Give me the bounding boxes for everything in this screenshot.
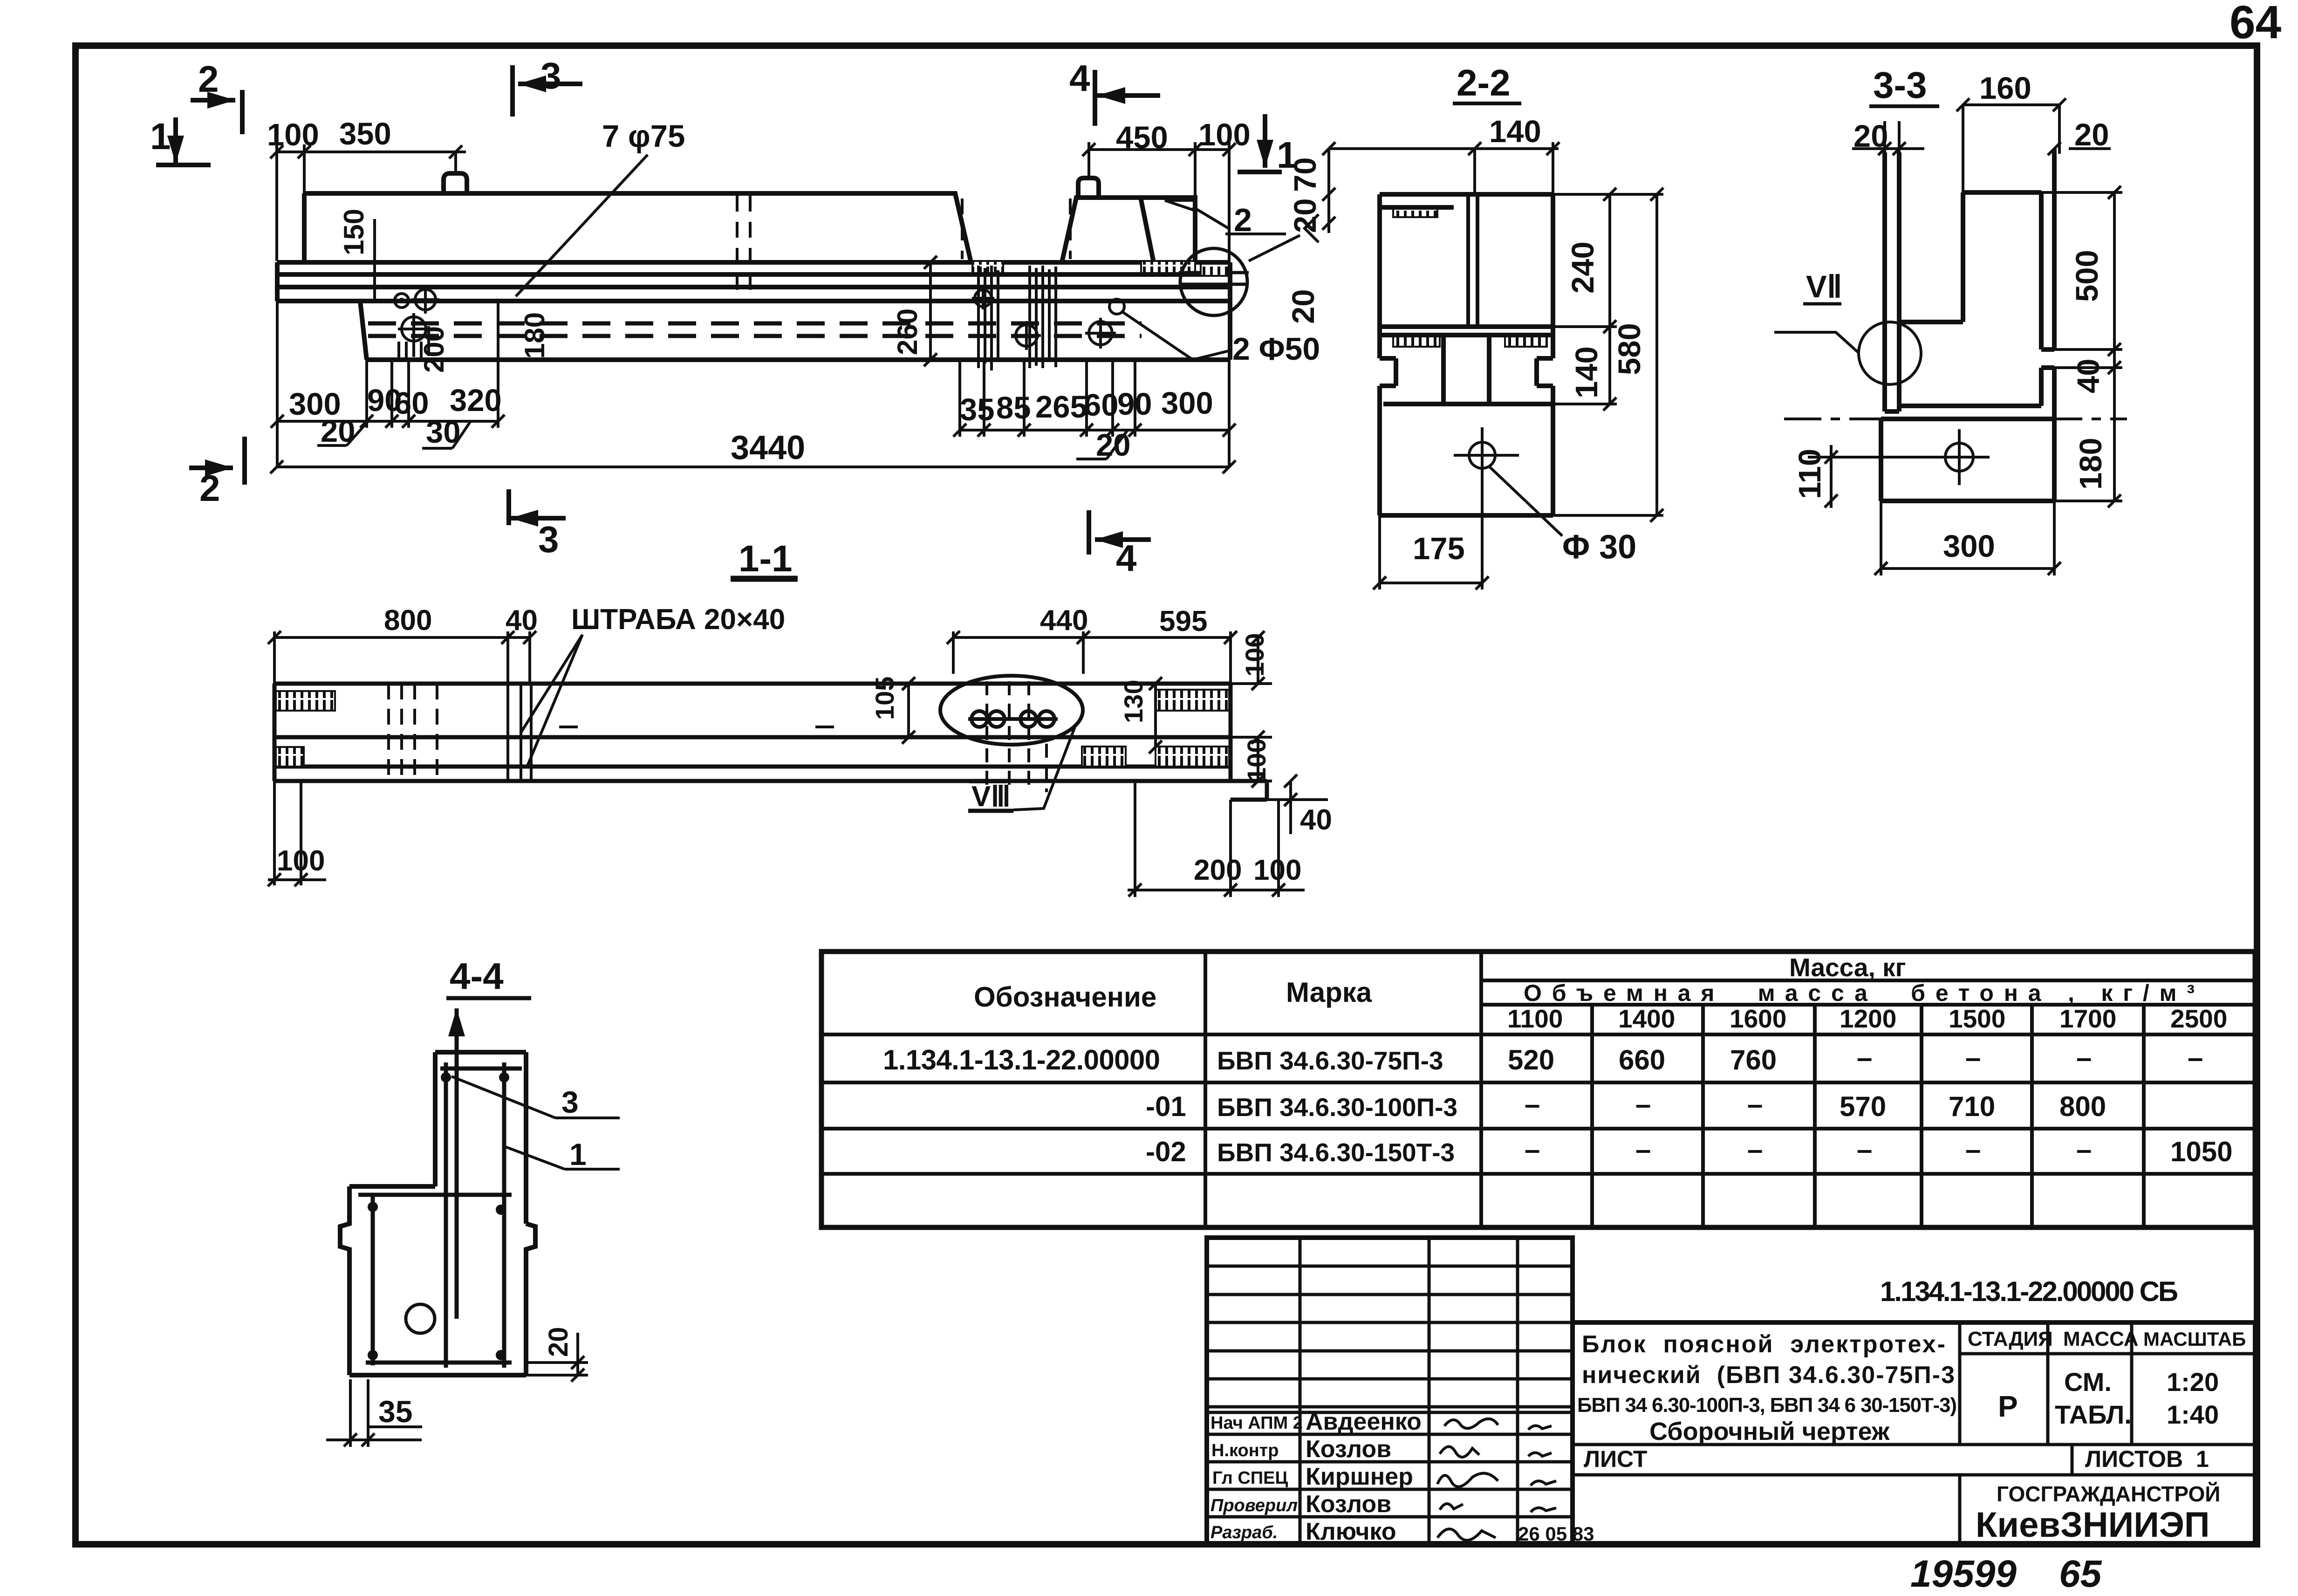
svg-text:Блок поясной электротех-: Блок поясной электротех- [1582,1331,1945,1358]
svg-text:320: 320 [450,383,502,418]
svg-text:–: – [1965,1042,1981,1073]
svg-text:100: 100 [1242,739,1271,782]
svg-text:–: – [1525,1089,1540,1120]
svg-text:Н.контр: Н.контр [1211,1441,1279,1460]
svg-text:ТАБЛ.: ТАБЛ. [2055,1400,2132,1429]
svg-text:520: 520 [1508,1044,1554,1075]
svg-text:–: – [1747,1134,1763,1165]
svg-text:БВП 34.6.30-150Т-3: БВП 34.6.30-150Т-3 [1217,1138,1455,1167]
svg-text:110: 110 [1792,449,1827,499]
svg-text:800: 800 [384,604,432,637]
svg-text:Масса, кг: Масса, кг [1789,953,1906,982]
svg-text:1050: 1050 [2170,1136,2232,1167]
svg-text:–: – [2076,1134,2092,1165]
svg-text:1400: 1400 [1618,1004,1675,1033]
svg-text:1-1: 1-1 [739,538,793,579]
svg-text:Проверил: Проверил [1211,1496,1298,1515]
svg-text:–: – [1747,1089,1763,1120]
svg-text:СМ.: СМ. [2064,1367,2112,1397]
svg-text:140: 140 [1569,346,1604,398]
svg-text:4-4: 4-4 [450,955,504,997]
svg-text:КиевЗНИИЭП: КиевЗНИИЭП [1976,1505,2210,1545]
svg-text:2 Φ50: 2 Φ50 [1232,331,1320,367]
svg-text:МАСШТАБ: МАСШТАБ [2143,1328,2246,1350]
svg-text:105: 105 [870,677,899,720]
svg-text:100: 100 [1253,854,1301,886]
svg-text:20: 20 [1096,428,1131,463]
svg-text:Обозначение: Обозначение [974,981,1156,1013]
svg-text:20: 20 [1853,119,1888,154]
svg-text:2500: 2500 [2170,1004,2227,1033]
svg-text:100: 100 [1240,633,1269,677]
svg-text:2: 2 [199,467,220,509]
svg-text:–: – [1635,1089,1651,1120]
svg-text:180: 180 [519,312,550,359]
svg-text:60: 60 [394,386,429,421]
svg-text:19599 65: 19599 65 [1910,1553,2102,1595]
svg-text:Киршнер: Киршнер [1306,1463,1413,1490]
svg-text:500: 500 [2070,250,2105,302]
svg-text:БВП 34.6.30-100П-3: БВП 34.6.30-100П-3 [1217,1093,1457,1122]
svg-text:VⅢ: VⅢ [971,781,1011,813]
svg-text:64: 64 [2230,0,2282,48]
svg-text:300: 300 [1161,386,1213,421]
svg-text:200: 200 [418,326,450,373]
svg-text:265: 265 [1035,390,1087,425]
svg-text:БВП 34 6.30-100П-3, БВП 34 6 3: БВП 34 6.30-100П-3, БВП 34 6 30-150Т-3) [1577,1394,1957,1417]
svg-text:Φ 30: Φ 30 [1562,528,1636,566]
svg-text:70: 70 [1288,157,1323,192]
svg-text:1: 1 [150,116,171,157]
svg-text:150: 150 [338,209,369,255]
svg-text:26 05 83: 26 05 83 [1518,1523,1594,1545]
svg-text:260: 260 [892,308,923,355]
svg-text:180: 180 [2073,438,2108,490]
svg-text:200: 200 [1194,854,1242,886]
svg-text:1:40: 1:40 [2167,1400,2219,1429]
svg-text:40: 40 [506,604,538,637]
svg-text:2: 2 [198,58,219,100]
svg-text:Ключко: Ключко [1306,1518,1396,1545]
svg-text:100: 100 [267,117,319,152]
svg-text:Нач АПМ 2: Нач АПМ 2 [1211,1413,1303,1433]
svg-text:4: 4 [1116,537,1137,579]
svg-text:–: – [1965,1134,1981,1165]
svg-text:–: – [1525,1134,1540,1165]
svg-text:3: 3 [538,519,559,560]
svg-text:100: 100 [277,845,325,877]
svg-text:1.134.1-13.1-22.00000: 1.134.1-13.1-22.00000 [883,1044,1160,1075]
svg-text:7 φ75: 7 φ75 [602,119,685,154]
svg-text:240: 240 [1566,241,1600,294]
svg-text:ШТРАБА 20×40: ШТРАБА 20×40 [571,603,785,636]
svg-text:760: 760 [1730,1044,1777,1075]
svg-text:Р: Р [1998,1390,2018,1423]
svg-text:–: – [1635,1134,1651,1165]
svg-text:Гл СПЕЦ: Гл СПЕЦ [1212,1468,1288,1488]
svg-text:Авдеенко: Авдеенко [1306,1408,1422,1435]
svg-text:-01: -01 [1146,1091,1186,1122]
svg-text:3440: 3440 [731,429,805,466]
svg-text:20: 20 [1288,198,1323,233]
svg-text:3: 3 [540,55,561,96]
svg-text:3: 3 [561,1085,579,1119]
svg-text:300: 300 [1943,529,1995,564]
svg-text:Сборочный чертеж: Сборочный чертеж [1649,1418,1890,1445]
svg-text:20: 20 [321,414,356,449]
svg-text:40: 40 [2071,358,2106,393]
svg-text:ЛИСТОВ 1: ЛИСТОВ 1 [2085,1446,2209,1472]
svg-text:3-3: 3-3 [1873,64,1927,106]
svg-text:Марка: Марка [1286,977,1372,1008]
svg-text:VⅡ: VⅡ [1806,269,1842,304]
svg-text:–: – [2188,1042,2203,1073]
svg-text:2: 2 [1234,202,1252,238]
svg-text:1500: 1500 [1949,1004,2005,1033]
svg-text:20: 20 [1286,289,1321,324]
svg-text:СТАДИЯ: СТАДИЯ [1968,1328,2053,1350]
svg-text:800: 800 [2059,1091,2106,1122]
svg-text:660: 660 [1619,1044,1665,1075]
svg-text:580: 580 [1612,323,1647,375]
svg-text:1700: 1700 [2059,1004,2116,1033]
svg-text:595: 595 [1159,605,1207,637]
svg-text:570: 570 [1840,1091,1886,1122]
svg-text:1100: 1100 [1507,1004,1563,1033]
svg-text:Козлов: Козлов [1306,1436,1391,1463]
svg-text:35: 35 [378,1394,412,1429]
svg-text:1600: 1600 [1730,1004,1786,1033]
svg-text:1: 1 [569,1137,587,1171]
svg-text:2-2: 2-2 [1457,62,1511,103]
svg-text:350: 350 [339,116,391,151]
svg-text:20: 20 [2074,117,2109,152]
svg-text:90: 90 [1117,387,1152,422]
svg-text:60: 60 [1084,388,1119,423]
svg-text:–: – [2076,1042,2092,1073]
svg-text:35: 35 [960,392,995,427]
svg-text:710: 710 [1949,1091,1995,1122]
svg-text:Козлов: Козлов [1306,1491,1391,1518]
svg-text:30: 30 [426,415,461,450]
svg-text:140: 140 [1489,114,1541,149]
svg-text:Разраб.: Разраб. [1211,1523,1278,1542]
svg-text:450: 450 [1116,120,1168,155]
svg-text:4: 4 [1069,57,1090,99]
svg-text:160: 160 [1979,71,2031,106]
svg-text:ГОСГРАЖДАНСТРОЙ: ГОСГРАЖДАНСТРОЙ [1997,1482,2220,1506]
svg-text:130: 130 [1119,680,1148,723]
svg-text:–: – [1857,1134,1872,1165]
svg-text:85: 85 [996,390,1031,425]
svg-text:40: 40 [1300,804,1332,836]
svg-text:ЛИСТ: ЛИСТ [1584,1446,1647,1472]
svg-text:100: 100 [1198,117,1251,152]
svg-text:БВП 34.6.30-75П-3: БВП 34.6.30-75П-3 [1217,1046,1443,1075]
svg-text:175: 175 [1413,531,1465,566]
svg-text:20: 20 [543,1327,574,1357]
svg-text:-02: -02 [1146,1136,1186,1167]
svg-text:1.134.1-13.1-22.00000 СБ: 1.134.1-13.1-22.00000 СБ [1880,1276,2178,1307]
svg-text:–: – [1857,1042,1872,1073]
svg-text:1:20: 1:20 [2167,1367,2219,1397]
svg-text:МАССА: МАССА [2063,1328,2139,1350]
svg-text:1200: 1200 [1840,1004,1896,1033]
svg-text:440: 440 [1040,604,1088,637]
